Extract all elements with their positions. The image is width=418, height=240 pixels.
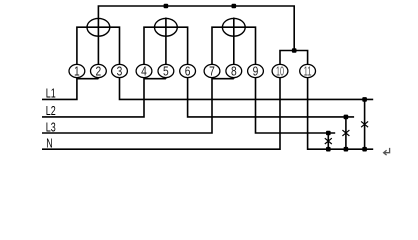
svg-text:6: 6	[185, 64, 191, 79]
svg-text:L2: L2	[46, 103, 56, 118]
svg-text:2: 2	[96, 64, 102, 79]
svg-text:5: 5	[163, 64, 169, 79]
svg-text:4: 4	[141, 64, 147, 79]
svg-text:N: N	[46, 136, 52, 151]
svg-text:7: 7	[209, 64, 215, 79]
svg-text:L1: L1	[46, 86, 56, 101]
svg-text:9: 9	[253, 64, 259, 79]
svg-text:1: 1	[74, 64, 80, 79]
svg-text:L3: L3	[46, 119, 56, 134]
svg-text:11: 11	[304, 65, 312, 79]
svg-text:10: 10	[276, 65, 284, 79]
svg-text:8: 8	[231, 64, 237, 79]
svg-text:3: 3	[117, 64, 123, 79]
